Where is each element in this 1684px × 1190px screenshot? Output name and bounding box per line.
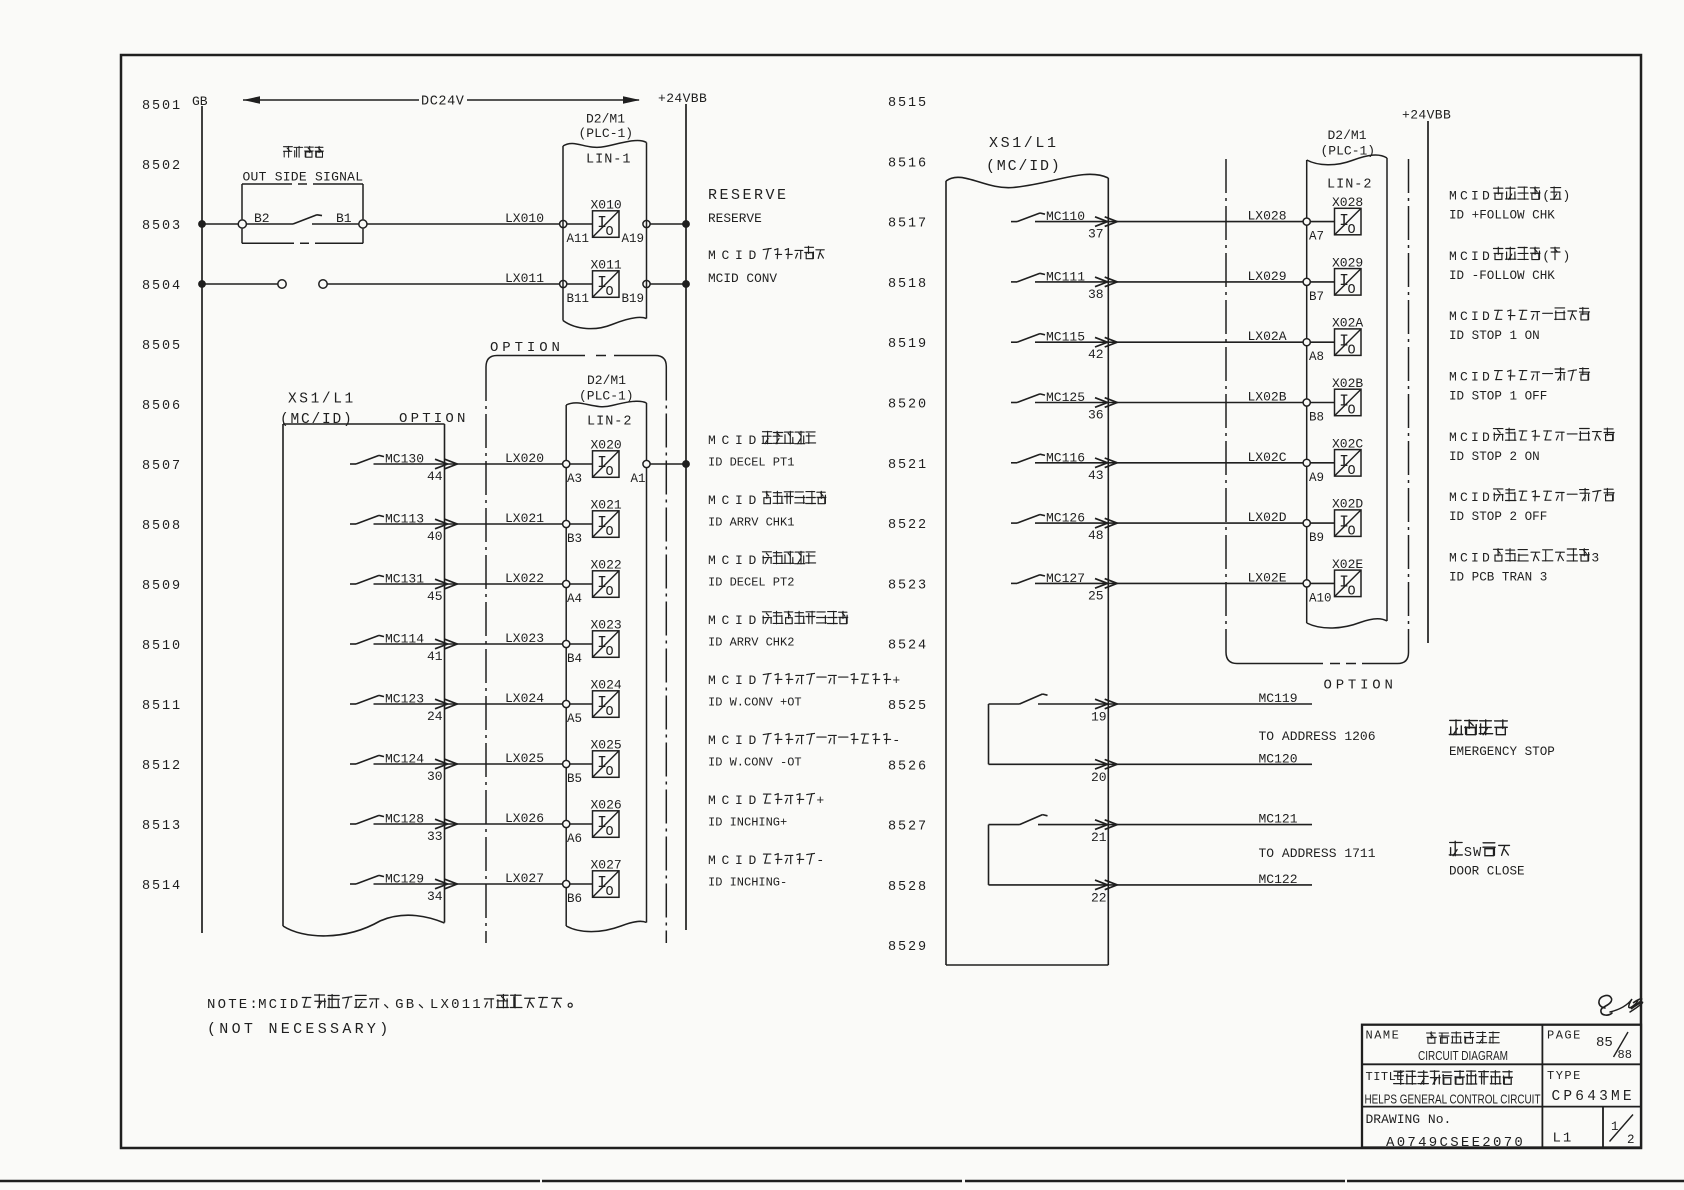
svg-text:LX027: LX027 — [505, 871, 544, 886]
contact MC130 — [350, 463, 356, 465]
label door close (jp) — [1449, 841, 1462, 855]
pin circle B19 — [643, 280, 650, 287]
svg-text:O: O — [606, 765, 614, 780]
wire rung 8512 — [374, 763, 563, 765]
svg-text:(PLC-1): (PLC-1) — [579, 389, 634, 404]
svg-text:A19: A19 — [622, 232, 645, 246]
contact MC127 — [1011, 582, 1017, 584]
svg-text:8516: 8516 — [888, 156, 928, 171]
contact MC114 — [350, 643, 356, 645]
svg-text:ID -FOLLOW CHK: ID -FOLLOW CHK — [1449, 269, 1555, 283]
svg-text:8507: 8507 — [142, 459, 182, 474]
branch wire 8527/8528 — [988, 825, 990, 885]
svg-text:ID PCB TRAN 3: ID PCB TRAN 3 — [1449, 570, 1547, 584]
svg-text:19: 19 — [1091, 710, 1107, 725]
svg-text:MCID: MCID — [1449, 490, 1493, 505]
coil X011 — [593, 271, 620, 298]
title block name (jp) denki kairo zu — [1427, 1032, 1437, 1043]
svg-text:ID DECEL PT2: ID DECEL PT2 — [708, 576, 794, 590]
svg-text:L1: L1 — [1553, 1131, 1574, 1147]
svg-text:8501: 8501 — [142, 99, 182, 114]
svg-text:45: 45 — [427, 589, 443, 604]
svg-text:ID DECEL PT1: ID DECEL PT1 — [708, 456, 794, 470]
svg-text:ID ARRV CHK2: ID ARRV CHK2 — [708, 636, 794, 650]
wire rung 8511 — [374, 703, 563, 705]
coil X023 — [593, 631, 620, 658]
svg-text:LX02D: LX02D — [1248, 510, 1287, 525]
svg-text:48: 48 — [1088, 528, 1104, 543]
svg-text:+: + — [892, 673, 906, 688]
svg-text:CIRCUIT DIAGRAM: CIRCUIT DIAGRAM — [1418, 1048, 1508, 1063]
wire rung 8503 from GB bus to B2 — [198, 220, 206, 228]
svg-text:MCID: MCID — [708, 433, 762, 448]
coil X022 — [593, 571, 620, 598]
svg-text:ID W.CONV +OT: ID W.CONV +OT — [708, 696, 802, 710]
svg-text:O: O — [606, 585, 614, 600]
svg-text:B1: B1 — [336, 211, 352, 226]
svg-text:(: ( — [1542, 249, 1550, 264]
coil X024 — [593, 691, 620, 718]
svg-text:O: O — [606, 645, 614, 660]
svg-text:LX011: LX011 — [505, 271, 544, 286]
svg-text:25: 25 — [1088, 588, 1104, 603]
coil X021 — [593, 511, 620, 538]
svg-text:): ) — [1563, 189, 1571, 204]
svg-text:8503: 8503 — [142, 219, 182, 234]
svg-text:ID INCHING+: ID INCHING+ — [708, 816, 787, 830]
svg-text:8510: 8510 — [142, 639, 182, 654]
contact terminal 19 — [989, 703, 1020, 705]
wire rung 8503 to +24VBB bus — [650, 223, 686, 225]
svg-text:+24VBB: +24VBB — [1402, 108, 1451, 123]
wire rung 8504 from GB bus — [198, 280, 206, 288]
coil X02B — [1335, 389, 1362, 416]
pin circle B7 — [1303, 278, 1310, 285]
svg-text:NOTE: NOTE — [207, 997, 249, 1013]
pin circle B5 — [563, 760, 570, 767]
wire rung 8527 — [1038, 824, 1312, 826]
svg-text:MCID: MCID — [708, 493, 762, 508]
svg-text:B5: B5 — [567, 772, 582, 786]
svg-text:ID STOP 1 ON: ID STOP 1 ON — [1449, 329, 1540, 343]
svg-text:21: 21 — [1091, 830, 1107, 845]
wire rung 8509 — [374, 583, 563, 585]
svg-text:A5: A5 — [567, 712, 582, 726]
svg-text:(MC/ID): (MC/ID) — [986, 158, 1062, 175]
pin circle A5 — [563, 700, 570, 707]
svg-text:TYPE: TYPE — [1547, 1069, 1582, 1083]
pin circle A11 — [560, 220, 567, 227]
svg-text:O: O — [606, 885, 614, 900]
svg-text:B3: B3 — [567, 532, 582, 546]
svg-text:A7: A7 — [1309, 230, 1324, 244]
DC24V dimension arrow — [243, 99, 419, 101]
+24VBB bus (right) — [1427, 121, 1429, 643]
svg-text:MCID: MCID — [708, 673, 762, 688]
svg-text:MCID: MCID — [708, 793, 762, 808]
svg-text:D2/M1: D2/M1 — [587, 373, 626, 388]
wire rung 8518 — [1035, 281, 1303, 283]
wire rung 8519 — [1035, 341, 1303, 343]
svg-text:36: 36 — [1088, 408, 1104, 423]
svg-text:(: ( — [1542, 189, 1550, 204]
coil X025 — [593, 751, 620, 778]
svg-text:A8: A8 — [1309, 350, 1324, 364]
svg-text:LX026: LX026 — [505, 811, 544, 826]
svg-text:DRAWING No.: DRAWING No. — [1366, 1112, 1452, 1127]
wire rung 8507 to +24VBB bus — [650, 463, 686, 465]
svg-text:MCID: MCID — [1449, 430, 1493, 445]
svg-text:ID INCHING-: ID INCHING- — [708, 876, 787, 890]
svg-text:B6: B6 — [567, 892, 582, 906]
svg-text:O: O — [1348, 404, 1356, 419]
contact MC129 — [350, 883, 356, 885]
svg-text:A3: A3 — [567, 472, 582, 486]
pin circle A10 — [1303, 580, 1310, 587]
contact MC131 — [350, 583, 356, 585]
label gaibu shingou (external signal) — [284, 146, 293, 157]
svg-text:O: O — [1348, 343, 1356, 358]
coil X02C — [1335, 450, 1362, 477]
svg-text:RESERVE: RESERVE — [708, 211, 762, 226]
svg-text:8505: 8505 — [142, 339, 182, 354]
wire rung 8514 — [374, 883, 563, 885]
contact MC124 — [350, 763, 356, 765]
svg-text:85: 85 — [1596, 1035, 1613, 1051]
svg-text:X02C: X02C — [1332, 436, 1363, 451]
svg-text:X027: X027 — [591, 858, 622, 873]
pin circle A4 — [563, 580, 570, 587]
svg-text:X011: X011 — [591, 258, 622, 273]
svg-text:X02B: X02B — [1332, 376, 1363, 391]
svg-text:MCID: MCID — [1449, 189, 1493, 204]
svg-text:LX024: LX024 — [505, 691, 544, 706]
svg-text:O: O — [1348, 464, 1356, 479]
svg-text:41: 41 — [427, 649, 443, 664]
pin circle A3 — [563, 460, 570, 467]
contact MC128 — [350, 823, 356, 825]
svg-text:8527: 8527 — [888, 820, 928, 835]
coil X027 — [593, 871, 620, 898]
contact terminal 21 — [989, 824, 1020, 826]
svg-text:MCID: MCID — [708, 733, 762, 748]
svg-text:CP643ME: CP643ME — [1552, 1089, 1635, 1105]
svg-text:X029: X029 — [1332, 255, 1363, 270]
svg-text:30: 30 — [427, 769, 443, 784]
pin circle B3 — [563, 520, 570, 527]
svg-text:8515: 8515 — [888, 96, 928, 111]
svg-text:42: 42 — [1088, 347, 1104, 362]
svg-text:X010: X010 — [591, 198, 622, 213]
svg-text:LX020: LX020 — [505, 451, 544, 466]
pin circle A8 — [1303, 339, 1310, 346]
svg-text:MCID: MCID — [1449, 309, 1493, 324]
svg-text:24: 24 — [427, 709, 443, 724]
svg-text:-: - — [892, 733, 906, 748]
svg-text:): ) — [1563, 249, 1571, 264]
svg-text:40: 40 — [427, 529, 443, 544]
svg-text:RESERVE: RESERVE — [708, 187, 789, 204]
svg-text:LIN-2: LIN-2 — [1327, 178, 1373, 193]
svg-text:LX023: LX023 — [505, 631, 544, 646]
wire rung 8521 — [1035, 462, 1303, 464]
dashed box OUT SIDE SIGNAL — [242, 183, 363, 185]
svg-text:X020: X020 — [591, 438, 622, 453]
wire rung 8528 — [989, 884, 1313, 886]
left OPTION dash-dot box — [486, 356, 585, 368]
svg-text:A1: A1 — [631, 472, 646, 486]
svg-text:8528: 8528 — [888, 880, 928, 895]
svg-text:A0749CSEE2070: A0749CSEE2070 — [1386, 1135, 1525, 1151]
svg-text:A6: A6 — [567, 832, 582, 846]
svg-text:MC120: MC120 — [1259, 751, 1298, 766]
svg-text:X024: X024 — [591, 678, 622, 693]
svg-text:8504: 8504 — [142, 279, 182, 294]
coil X026 — [593, 811, 620, 838]
svg-text:LX021: LX021 — [505, 511, 544, 526]
svg-text:OPTION: OPTION — [490, 340, 564, 356]
svg-text:LX022: LX022 — [505, 571, 544, 586]
title block title (jp) — [1394, 1071, 1404, 1085]
svg-text:LX028: LX028 — [1248, 209, 1287, 224]
svg-text:MCID: MCID — [1449, 550, 1493, 565]
terminal circle B1 — [359, 220, 367, 228]
svg-text:33: 33 — [427, 829, 443, 844]
wire rung 8526 — [989, 763, 1313, 765]
GB bus (left rail) — [201, 106, 203, 933]
svg-text:20: 20 — [1091, 770, 1107, 785]
svg-text:DC24V: DC24V — [421, 95, 465, 110]
svg-text:ID STOP 1 OFF: ID STOP 1 OFF — [1449, 390, 1547, 404]
svg-text:O: O — [1348, 223, 1356, 238]
title block frame — [1362, 1025, 1641, 1148]
coil X020 — [593, 451, 620, 478]
svg-text:A11: A11 — [567, 232, 590, 246]
label emergency stop (jp) — [1449, 720, 1462, 735]
+24VBB bus (left) — [685, 104, 687, 930]
pin circle A19 — [643, 220, 650, 227]
svg-text:B9: B9 — [1309, 531, 1324, 545]
svg-text:XS1/L1: XS1/L1 — [288, 392, 356, 408]
svg-text:MC119: MC119 — [1259, 691, 1298, 706]
coil X02E — [1335, 570, 1362, 597]
svg-text:22: 22 — [1091, 890, 1107, 905]
wire rung 8517 — [1035, 221, 1303, 223]
svg-text:2: 2 — [1627, 1133, 1635, 1147]
svg-text:(MC/ID): (MC/ID) — [280, 412, 354, 428]
svg-text:8509: 8509 — [142, 579, 182, 594]
contact MC116 — [1011, 462, 1017, 464]
svg-text:LX025: LX025 — [505, 751, 544, 766]
svg-text:8522: 8522 — [888, 518, 928, 533]
svg-text:DOOR CLOSE: DOOR CLOSE — [1449, 865, 1525, 879]
pin circle B4 — [563, 640, 570, 647]
svg-text:MCID CONV: MCID CONV — [708, 271, 777, 286]
svg-text:X023: X023 — [591, 618, 622, 633]
wire rung 8504 to LIN-1 — [327, 283, 559, 285]
svg-text:B8: B8 — [1309, 411, 1324, 425]
switch B2-B1 (outside signal) — [247, 223, 294, 225]
svg-text:(NOT NECESSARY): (NOT NECESSARY) — [207, 1021, 392, 1038]
svg-text:D2/M1: D2/M1 — [586, 112, 625, 127]
pin circle B9 — [1303, 520, 1310, 527]
svg-text:8514: 8514 — [142, 879, 182, 894]
connector XS1/L1 box (left) — [283, 423, 445, 425]
contact MC110 — [1011, 221, 1017, 223]
svg-text:TO ADDRESS 1711: TO ADDRESS 1711 — [1259, 846, 1376, 861]
svg-text:X02E: X02E — [1332, 557, 1363, 572]
svg-text:MCID: MCID — [1449, 370, 1493, 385]
svg-text:8511: 8511 — [142, 699, 182, 714]
svg-text:SW: SW — [1464, 846, 1483, 861]
svg-text:8519: 8519 — [888, 337, 928, 352]
svg-text:(PLC-1): (PLC-1) — [1321, 144, 1376, 159]
svg-text:+: + — [816, 793, 830, 808]
svg-text:38: 38 — [1088, 287, 1104, 302]
svg-text:O: O — [606, 465, 614, 480]
svg-text:O: O — [1348, 524, 1356, 539]
wire rung 8523 — [1035, 582, 1303, 584]
svg-text:3: 3 — [1591, 550, 1602, 565]
wire rung 8525 — [1038, 703, 1312, 705]
coil X010 — [593, 211, 620, 238]
svg-text:A10: A10 — [1309, 591, 1332, 605]
svg-text:D2/M1: D2/M1 — [1328, 128, 1367, 143]
coil X028 — [1335, 208, 1362, 235]
contact MC126 — [1011, 522, 1017, 524]
svg-text:X021: X021 — [591, 498, 622, 513]
svg-text:8520: 8520 — [888, 398, 928, 413]
svg-text:37: 37 — [1088, 227, 1104, 242]
coil X02D — [1335, 510, 1362, 537]
right OPTION dash-dot box — [1225, 159, 1227, 652]
svg-text:X02D: X02D — [1332, 497, 1363, 512]
svg-text:MCID: MCID — [258, 997, 300, 1013]
connector XS1/L1 box (right) — [946, 174, 1108, 187]
svg-text:8502: 8502 — [142, 159, 182, 174]
svg-text:OUT SIDE SIGNAL: OUT SIDE SIGNAL — [243, 170, 364, 185]
svg-text:TITLE: TITLE — [1366, 1070, 1405, 1084]
svg-text:LX02B: LX02B — [1248, 390, 1287, 405]
svg-text:A4: A4 — [567, 592, 582, 606]
svg-text:8518: 8518 — [888, 277, 928, 292]
svg-text:TO ADDRESS 1206: TO ADDRESS 1206 — [1259, 729, 1376, 744]
scan edge line at bottom — [0, 1180, 1684, 1182]
svg-text:B7: B7 — [1309, 290, 1324, 304]
svg-text:8526: 8526 — [888, 759, 928, 774]
svg-text:X025: X025 — [591, 738, 622, 753]
svg-text:8506: 8506 — [142, 399, 182, 414]
pin circle A6 — [563, 820, 570, 827]
terminal circle B2 — [238, 220, 246, 228]
svg-text:LX02E: LX02E — [1248, 570, 1287, 585]
svg-text:X02A: X02A — [1332, 316, 1363, 331]
coil X02A — [1335, 329, 1362, 356]
svg-text:LX010: LX010 — [505, 211, 544, 226]
svg-text:8525: 8525 — [888, 699, 928, 714]
branch wire 8525/8526 — [988, 704, 990, 764]
wire rung 8507 — [374, 463, 563, 465]
svg-text:B11: B11 — [567, 292, 590, 306]
svg-text:LX02C: LX02C — [1248, 450, 1287, 465]
svg-text:8523: 8523 — [888, 578, 928, 593]
svg-text:O: O — [606, 825, 614, 840]
svg-text:44: 44 — [427, 469, 443, 484]
svg-text:X022: X022 — [591, 558, 622, 573]
contact MC115 — [1011, 341, 1017, 343]
svg-text:MC122: MC122 — [1259, 872, 1298, 887]
svg-text:8512: 8512 — [142, 759, 182, 774]
wire rung 8510 — [374, 643, 563, 645]
contact MC111 — [1011, 281, 1017, 283]
svg-text:MCID: MCID — [708, 248, 762, 263]
svg-text:O: O — [1348, 283, 1356, 298]
svg-text:43: 43 — [1088, 468, 1104, 483]
svg-text:LIN-2: LIN-2 — [587, 415, 633, 430]
svg-text:88: 88 — [1618, 1048, 1632, 1062]
svg-text:8529: 8529 — [888, 940, 928, 955]
PLC module LIN-2 paper outline (left) — [566, 401, 646, 407]
PLC module LIN-2 paper outline (right) — [1307, 155, 1387, 165]
svg-text:8508: 8508 — [142, 519, 182, 534]
svg-text:+24VBB: +24VBB — [658, 91, 707, 106]
wire rung 8520 — [1035, 402, 1303, 404]
wire rung 8504 to +24VBB bus — [650, 283, 686, 285]
svg-text:NAME: NAME — [1366, 1029, 1401, 1043]
svg-text:B19: B19 — [622, 292, 645, 306]
svg-text:MCID: MCID — [1449, 249, 1493, 264]
svg-text:B4: B4 — [567, 652, 582, 666]
svg-text:LX029: LX029 — [1248, 269, 1287, 284]
wire rung 8513 — [374, 823, 563, 825]
pin circle A7 — [1303, 218, 1310, 225]
svg-text:34: 34 — [427, 889, 443, 904]
svg-text:8517: 8517 — [888, 217, 928, 232]
PLC module LIN-1 paper outline — [563, 140, 647, 147]
pin circle A9 — [1303, 459, 1310, 466]
svg-text:ID +FOLLOW CHK: ID +FOLLOW CHK — [1449, 209, 1555, 223]
pin circle A1 — [643, 460, 650, 467]
svg-text::: : — [249, 997, 257, 1013]
svg-text:LIN-1: LIN-1 — [586, 153, 632, 168]
svg-text:-: - — [816, 853, 830, 868]
svg-text:OPTION: OPTION — [1324, 678, 1397, 694]
svg-text:8524: 8524 — [888, 639, 928, 654]
svg-text:EMERGENCY STOP: EMERGENCY STOP — [1449, 745, 1555, 759]
svg-text:XS1/L1: XS1/L1 — [989, 135, 1059, 152]
wire rung 8522 — [1035, 522, 1303, 524]
svg-text:ID STOP 2 OFF: ID STOP 2 OFF — [1449, 510, 1547, 524]
svg-text:X028: X028 — [1332, 195, 1363, 210]
svg-text:GB: GB — [395, 997, 416, 1013]
coil X029 — [1335, 269, 1362, 296]
svg-text:MCID: MCID — [708, 613, 762, 628]
svg-text:PAGE: PAGE — [1547, 1029, 1582, 1043]
handwritten check mark 85 — [1599, 996, 1612, 1016]
open contact circles rung 8504 — [278, 280, 286, 288]
contact MC125 — [1011, 402, 1017, 404]
svg-text:A9: A9 — [1309, 471, 1324, 485]
svg-text:X026: X026 — [591, 798, 622, 813]
svg-text:8521: 8521 — [888, 458, 928, 473]
svg-text:O: O — [606, 225, 614, 240]
wire rung 8508 — [374, 523, 563, 525]
svg-text:MCID: MCID — [708, 853, 762, 868]
svg-text:HELPS GENERAL CONTROL CIRCUIT: HELPS GENERAL CONTROL CIRCUIT — [1365, 1092, 1541, 1107]
svg-text:(PLC-1): (PLC-1) — [579, 126, 634, 141]
svg-text:MCID: MCID — [708, 553, 762, 568]
svg-text:LX02A: LX02A — [1248, 329, 1287, 344]
